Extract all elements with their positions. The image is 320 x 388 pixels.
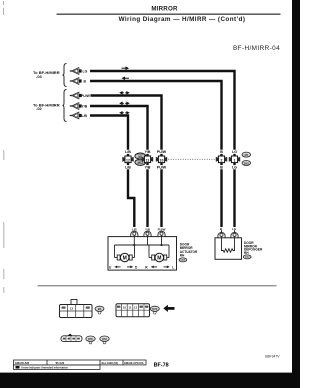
bottom black bar [0, 373, 300, 388]
motor M1 (U-D) [117, 253, 132, 262]
svg-text:Y/B: Y/B [145, 150, 151, 154]
connector code oval D2 [242, 152, 251, 157]
right margin black bar [292, 0, 300, 388]
svg-text:LG: LG [232, 166, 237, 170]
terminal pin 3 actuator [158, 231, 165, 237]
svg-text:D2: D2 [245, 153, 249, 157]
amended-information arrow [163, 305, 174, 312]
motor 1 branch wires [115, 245, 135, 258]
svg-text:L/B: L/B [82, 114, 88, 118]
node label: To BF-H/MIRR-03 [33, 70, 60, 79]
connector face M72 (2x6 grid) [116, 304, 150, 317]
flow double arrow on L/B [119, 111, 130, 115]
node label: To BF-H/MIRR-02 [33, 103, 60, 112]
svg-text:PU/W: PU/W [158, 227, 166, 231]
svg-text:LG: LG [232, 150, 237, 154]
svg-text:Y/B: Y/B [145, 166, 151, 170]
svg-text:-02: -02 [36, 106, 43, 111]
svg-text:L/B: L/B [125, 166, 131, 170]
svg-text:’95 G20: ’95 G20 [55, 361, 65, 365]
junction dot [160, 244, 162, 246]
svg-text:MIRROR: MIRROR [151, 5, 178, 12]
svg-text:RH: RH [180, 254, 185, 258]
dotted tie line between connectors [168, 158, 215, 160]
svg-text:-03: -03 [36, 74, 43, 79]
wire Y/B [90, 106, 148, 227]
actuator internal pin leads [134, 237, 161, 245]
page connector symbol wire B [69, 78, 81, 85]
svg-text:D52: D52 [244, 161, 249, 165]
inline connector on LG wire [229, 156, 240, 163]
wire LG [90, 71, 235, 227]
connector code oval M72 [150, 306, 159, 314]
svg-text:L/B: L/B [125, 150, 131, 154]
page connector symbol wire Y/B [69, 103, 81, 110]
connector code oval D52 [242, 161, 251, 166]
actuator connector code oval D55 [179, 258, 187, 262]
svg-text:2: 2 [221, 159, 223, 163]
motion arrow right (D) [127, 266, 133, 269]
connector code oval D55 [86, 336, 95, 344]
terminal pin 2 actuator [144, 231, 151, 237]
flow double arrow on Y/B [119, 102, 130, 106]
terminal pin 2 defogger [231, 230, 238, 238]
faint left-edge fold marks [3, 1, 5, 293]
svg-text:D52: D52 [102, 337, 107, 341]
inline connector on PU/W wire [156, 156, 167, 163]
svg-text:Y/B: Y/B [82, 105, 88, 109]
flow double arrow on PU/W [119, 91, 130, 95]
svg-text:GMA05-528: GMA05-528 [15, 361, 30, 365]
actuator internal bus wire [115, 244, 170, 246]
connector code ovals M3/M72 [135, 153, 146, 165]
svg-text:BF-H/MIRR-04: BF-H/MIRR-04 [233, 45, 280, 52]
svg-text:Y/B: Y/B [145, 227, 151, 231]
terminal pin 1 actuator [131, 231, 138, 237]
wire PU/W [91, 96, 162, 228]
svg-text:GMAIE-CP10US: GMAIE-CP10US [124, 361, 144, 365]
svg-text:11: 11 [129, 306, 132, 310]
svg-text:D52: D52 [245, 256, 250, 259]
svg-text:12: 12 [70, 307, 74, 311]
defogger caption [244, 241, 263, 255]
door mirror defogger box [215, 238, 242, 259]
svg-text:L: L [172, 265, 174, 269]
svg-text:PU/W: PU/W [81, 94, 91, 98]
svg-text:12: 12 [134, 306, 138, 310]
connector code oval D52 [100, 336, 109, 344]
svg-text:BF-78: BF-78 [154, 363, 169, 369]
junction dot [133, 244, 135, 246]
footer table [14, 360, 147, 370]
svg-text:RH: RH [244, 251, 249, 255]
svg-text:PU/W: PU/W [157, 150, 167, 154]
svg-text:PU/W: PU/W [157, 166, 167, 170]
svg-text:11: 11 [146, 159, 150, 163]
flow arrow right on LG [122, 66, 130, 70]
connector code oval M3 [95, 306, 104, 314]
header rule [57, 14, 281, 15]
svg-text:1: 1 [234, 159, 236, 163]
wire B [90, 81, 222, 227]
wire L/B [90, 116, 134, 228]
svg-text:,: , [98, 339, 99, 343]
svg-text:Dec 1993 (04): Dec 1993 (04) [102, 361, 119, 365]
svg-text:L/B: L/B [132, 227, 138, 231]
amended info note [16, 366, 69, 370]
connector face M3 (2x4 grid) [60, 300, 93, 318]
section separator line [38, 285, 277, 287]
motor 2 branch wires [149, 245, 169, 258]
terminal pin 1 defogger [218, 230, 225, 238]
motion arrow left (R) [151, 266, 157, 269]
connector strip D55 (1x4 pill) [61, 334, 82, 342]
svg-text:D55: D55 [181, 259, 186, 262]
brace group 1 [63, 64, 67, 87]
svg-text:M3: M3 [98, 307, 102, 311]
motor M2 (R-L) [152, 253, 167, 262]
svg-text:LG: LG [83, 70, 88, 74]
inline connector on B wire [216, 156, 227, 163]
white gaps behind connector-row labels [124, 150, 239, 170]
motion arrow right (L) [164, 266, 170, 269]
door mirror actuator box [108, 237, 177, 271]
flow arrow left on B [122, 76, 130, 80]
page connector symbol wire L/B [69, 112, 81, 119]
svg-text:M: M [157, 255, 161, 261]
actuator caption [180, 242, 198, 257]
page connector symbol wire LG [69, 68, 81, 75]
page connector symbol wire PU/W [69, 92, 81, 99]
svg-text:Wiring Diagram — H/MIRR — (Con: Wiring Diagram — H/MIRR — (Cont’d) [119, 16, 246, 23]
svg-text:SBF347V: SBF347V [265, 355, 280, 359]
svg-text:10: 10 [160, 159, 164, 163]
svg-text:M72: M72 [152, 307, 158, 311]
svg-text:Arrow indicates Amended inform: Arrow indicates Amended information [21, 366, 68, 370]
defogger heating element [222, 238, 235, 253]
svg-text:M: M [123, 255, 127, 261]
svg-text:D55: D55 [88, 337, 93, 341]
inline connector on L/B wire [122, 156, 133, 163]
motion arrow left (U) [114, 266, 120, 269]
svg-text:10: 10 [123, 306, 127, 310]
brace group 2 [63, 90, 67, 122]
svg-text:12: 12 [126, 159, 130, 163]
inline connector on Y/B wire [142, 156, 153, 163]
defogger connector code oval D52 [243, 255, 251, 259]
